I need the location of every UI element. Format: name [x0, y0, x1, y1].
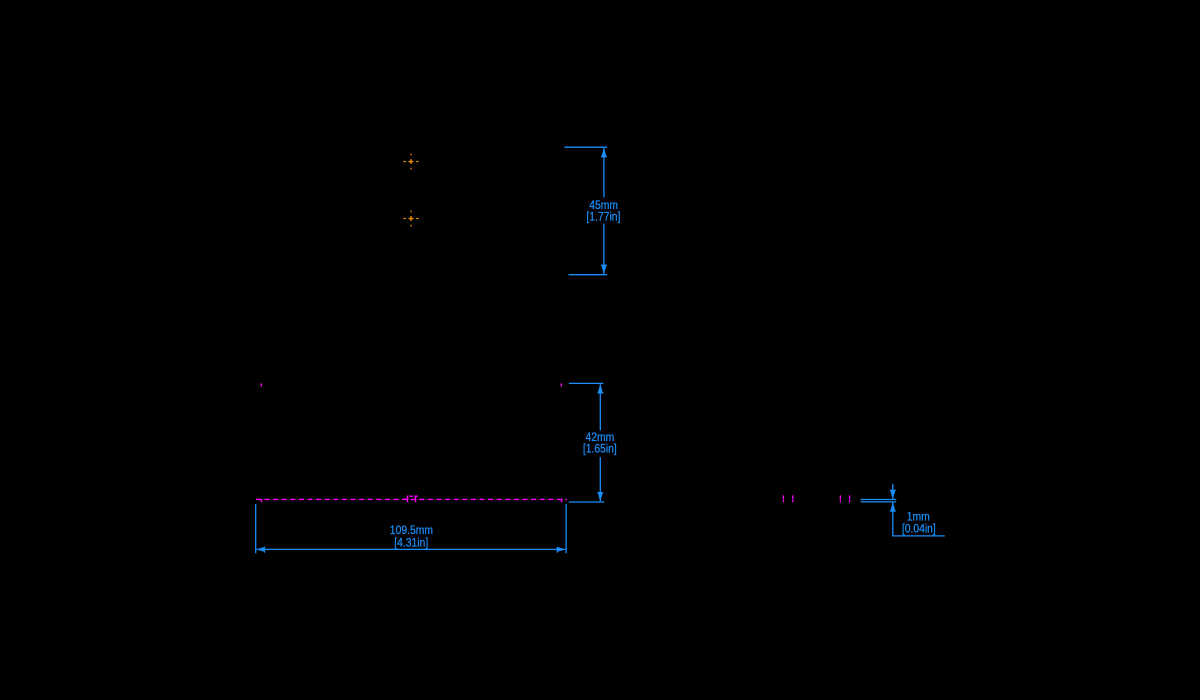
hidden edge stub right (front view top edge) — [561, 384, 562, 387]
center mark hole 2 (top view) — [404, 211, 419, 227]
bend line (magenta dashed, front view) — [256, 498, 567, 500]
dimension 42mm: text background — [581, 431, 620, 458]
dimension 42mm: dimension line — [599, 384, 601, 501]
dimension 45mm: text background — [584, 198, 623, 224]
dimension 109.5mm: left extension line — [255, 504, 257, 553]
dimension 1mm: up arrowhead — [890, 502, 896, 512]
dimension 45mm: lower arrowhead — [601, 265, 607, 275]
hidden edge stub left (bend line corner) — [261, 499, 262, 502]
dimension 45mm: upper arrowhead — [601, 148, 607, 158]
svg-text:[1.77in]: [1.77in] — [586, 211, 620, 224]
hidden edge stub left (front view top edge) — [261, 384, 262, 387]
dimension 1mm: down arrowhead — [890, 490, 896, 500]
center mark hole 1 (top view) — [404, 154, 419, 170]
hidden edge stub right (bend line corner) — [561, 499, 562, 502]
svg-text:[0.04in]: [0.04in] — [902, 523, 936, 536]
dimension 45mm: bottom extension line — [569, 274, 608, 276]
dimension 1mm: upper leader line — [892, 484, 894, 499]
dimension 42mm: lower arrowhead — [597, 492, 603, 502]
dimension 109.5mm: dimension line — [257, 548, 566, 550]
bend note glyphs on bend line — [405, 496, 418, 503]
dimension 109.5mm: right arrowhead — [557, 547, 566, 553]
dimension 1mm: upper extension line (sheet top edge) — [861, 499, 897, 501]
svg-text:[1.65in]: [1.65in] — [583, 443, 617, 456]
svg-text:[4.31in]: [4.31in] — [394, 537, 428, 550]
svg-text:109.5mm: 109.5mm — [390, 524, 433, 537]
dimension 1mm: lower extension line (sheet bottom edge) — [861, 501, 897, 503]
hidden hole edges (side view) hole A — [783, 495, 794, 502]
dimension 109.5mm: left arrowhead — [256, 547, 265, 553]
dimension 109.5mm: right extension line — [565, 504, 567, 553]
dimension 1mm: horizontal leader to text — [892, 535, 945, 537]
dimension 1mm: lower leader line — [892, 502, 894, 536]
dimension 42mm: upper arrowhead — [597, 384, 603, 394]
dimension 45mm: dimension line — [603, 148, 605, 274]
dimension 42mm: bottom extension line — [569, 501, 605, 503]
dimension 42mm: top extension line — [569, 382, 604, 384]
svg-text:1mm: 1mm — [907, 511, 930, 524]
dimension 45mm: top extension line — [565, 146, 608, 148]
hidden hole edges (side view) hole B — [840, 495, 851, 502]
